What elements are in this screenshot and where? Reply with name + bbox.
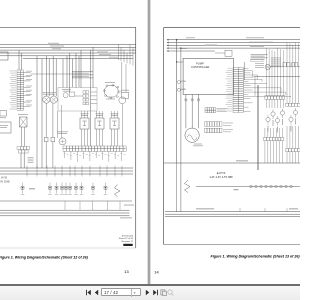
sheet border (right page schematic frame): [163, 28, 165, 245]
connector stub (page right, upper): [122, 92, 129, 98]
motor leads down to fuses: [45, 103, 47, 137]
wire drops from bus (mid columns): [36, 56, 38, 168]
bottom bus wires: [0, 209, 130, 211]
svg-text:Figure 1. Wiring Diagram/Schem: Figure 1. Wiring Diagram/Schematic (Shee…: [0, 255, 89, 259]
svg-text:EJ-HY3: EJ-HY3: [217, 172, 226, 175]
power bus wires (top, left page): [0, 44, 136, 46]
terminal strip TS2 (short, left): [17, 147, 20, 150]
connector C1 (vertical pin strip): [17, 70, 20, 72]
wires valve feeds: [81, 111, 83, 118]
valve coil wires: [96, 129, 98, 146]
harness wires from J1 to right side: [244, 62, 246, 80]
tool icon 2 (disabled): [167, 289, 174, 296]
solenoid valves SV1 SV2 SV3 (boxes with T-symbol): [80, 118, 89, 129]
motor leads (three drops with terminals): [185, 95, 187, 129]
terminal strip TS6 (bottom right): [286, 149, 289, 152]
wire drops from bus to connector C1: [18, 50, 20, 70]
transformer T1 (box with X): [20, 117, 28, 127]
TS1 drop wires and labels: [64, 151, 66, 158]
page gap shadow: [147, 0, 152, 286]
label column under TS2: [28, 156, 34, 159]
viewer toolbar: [0, 286, 300, 300]
page number box: [101, 288, 142, 296]
bus net labels: [48, 42, 59, 45]
sheet-break zigzag (right page): [185, 180, 191, 193]
relay pins (paired terminal boxes): [83, 91, 86, 94]
connector C1 pin labels: [10, 70, 17, 73]
terminal strip TS1 (long row of pins): [63, 146, 66, 149]
sheet border (left page schematic frame): [0, 26, 136, 28]
motor M1 (circle-X symbol): [43, 96, 50, 103]
collector bus wire: [164, 162, 300, 164]
motor labels: [42, 91, 56, 94]
toolbar separator: [0, 284, 300, 286]
terminal wire with ring terminals: [196, 186, 300, 188]
inline fuses F1 F2 (small squares): [44, 137, 48, 141]
valve coil wires: [111, 129, 113, 146]
aux box (left edge): [0, 111, 7, 117]
terminal strip TS4 (top right): [286, 103, 289, 106]
cluster feed wires to bus: [62, 59, 64, 88]
svg-text:ON D0B: ON D0B: [0, 179, 10, 183]
long feeder wire (vertical, left): [176, 40, 178, 163]
option connector grid G2: [205, 122, 208, 127]
wires TS3 down: [265, 99, 267, 108]
right page sheet: [151, 0, 300, 286]
bottom bus ticks: [64, 201, 66, 210]
wires into TS5 / out of TS5: [264, 128, 266, 137]
J1 pin wires to right: [243, 68, 248, 70]
terminal strip TS5: [264, 137, 267, 140]
battery box (cut off at left edge): [0, 52, 8, 60]
svg-text:14: 14: [154, 270, 159, 275]
label box: [251, 59, 263, 61]
wires from C1 to the right: [24, 72, 31, 74]
motor M2 (circle-X symbol): [50, 96, 57, 103]
feeder wire 2: [180, 48, 182, 212]
svg-text:13: 13: [124, 269, 128, 274]
drawing number bar: [123, 244, 132, 246]
long wire (lower): [0, 200, 132, 202]
transformer secondary wires: [21, 127, 23, 147]
svg-text:1-2T, 2-3T, 4-5T CB8: 1-2T, 2-3T, 4-5T CB8: [209, 176, 233, 179]
nav last button: [152, 289, 159, 296]
connector stub C-HB5: [177, 88, 180, 91]
bottom bus wires (right page): [165, 211, 300, 213]
svg-text:JLG/Gradall: JLG/Gradall: [121, 235, 133, 238]
svg-text:PD8: PD8: [182, 81, 187, 83]
hydraulic tank box (cut at left): [0, 122, 11, 133]
gauge G1 (small circle): [63, 93, 68, 98]
diode/terminal row (small sq+dot symbols): [21, 186, 24, 189]
valve coil wires: [81, 129, 83, 146]
option connector grid G3: [205, 128, 208, 133]
power bus wires (top, right page) with arrow ends: [169, 39, 301, 41]
svg-text:Revision 12: Revision 12: [122, 241, 134, 243]
label HX8: [29, 188, 35, 189]
svg-text:CONTROLLER: CONTROLLER: [191, 65, 209, 69]
mid bus wires (three horizontals): [0, 167, 133, 169]
option connector grid G1: [205, 108, 207, 111]
sheet-break zigzag: [115, 185, 121, 198]
pressure switch PS1 (circle): [59, 138, 66, 145]
svg-text:HB5: HB5: [182, 89, 187, 91]
nav first-page button: [85, 289, 92, 296]
controller pin connector J1 (vertical strip): [233, 68, 238, 70]
connector stub C-PD8: [177, 81, 180, 84]
bus junction ticks: [26, 166, 28, 177]
relay box K1 (top small box): [225, 50, 232, 56]
wire elbows to right border: [118, 45, 120, 61]
svg-text:PUMP: PUMP: [196, 61, 204, 65]
bus labels: [186, 36, 195, 39]
solenoid circles (valve coils): [266, 117, 270, 121]
left page sheet: [0, 0, 147, 286]
round connector CN-MAIN (octagon with pins): [105, 86, 119, 98]
TS3 feed wires up: [265, 48, 267, 96]
J1 pin labels: [228, 67, 233, 70]
wire spec text block: [251, 53, 268, 56]
inline connector CC1 (circle): [265, 64, 270, 69]
svg-text:Figure 1. Wiring Diagram/Schem: Figure 1. Wiring Diagram/Schematic (Shee…: [211, 255, 301, 259]
relay cluster enclosure: [58, 88, 97, 112]
feeder tap to controller: [177, 61, 184, 63]
pump controller U1 (box): [183, 58, 233, 94]
pump motor M (large circle): [185, 128, 199, 142]
wires down from TS2: [20, 153, 22, 168]
svg-text:Sheet 12 of 26: Sheet 12 of 26: [119, 237, 134, 240]
stacked wire labels (right of circle): [271, 57, 281, 60]
gauge G2 (circle on right cluster): [119, 97, 126, 104]
terminal strip TS3 (horizontal): [265, 96, 268, 99]
tool icon (disabled): [160, 289, 167, 296]
nav next button: [144, 289, 151, 296]
stacked wire labels (left of circle): [255, 62, 264, 65]
inline connector pair boxes: [283, 63, 286, 67]
wire through connectors: [270, 66, 283, 68]
harness wires from J1 strip to terminal strips (L-bends): [243, 70, 252, 72]
nav prev button: [93, 289, 100, 296]
bus tie verticals: [176, 163, 178, 212]
note text block (wire spec note): [72, 70, 93, 73]
